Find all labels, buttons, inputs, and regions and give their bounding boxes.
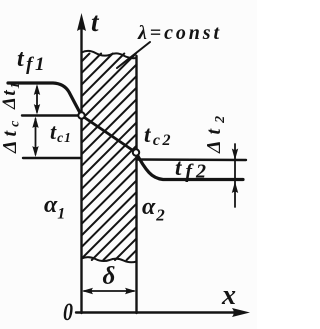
svg-text:α1: α1	[44, 192, 65, 223]
wall right face	[135, 56, 137, 313]
t axis (wall left face)	[80, 27, 82, 313]
node t_c2	[133, 149, 139, 155]
dimension arrow delta	[82, 288, 136, 294]
svg-text:tc1: tc1	[50, 119, 72, 145]
temperature line inside wall t_c1 -> t_c2	[82, 116, 137, 153]
x axis	[76, 311, 243, 313]
t_c1 level line	[22, 114, 81, 116]
svg-text:x: x	[221, 280, 236, 311]
node t_c1	[78, 112, 84, 118]
svg-text:tf1: tf1	[17, 46, 47, 75]
svg-text:Δtc: Δtc	[0, 117, 23, 154]
svg-text:Δt2: Δt2	[203, 110, 228, 154]
svg-text:Δt1: Δt1	[0, 81, 22, 110]
hatching of wall	[82, 54, 137, 261]
svg-text:λ=const: λ=const	[137, 22, 220, 44]
dimension arrow dtc	[32, 117, 38, 158]
t_c2 level line (right of wall)	[138, 158, 246, 161]
svg-text:δ: δ	[103, 263, 116, 290]
lambda pointer line	[117, 42, 150, 68]
dimension arrow dt2	[232, 144, 238, 207]
svg-text:0: 0	[63, 298, 73, 326]
svg-text:tc2: tc2	[144, 122, 173, 149]
t_c2 level line (left of wall)	[23, 157, 80, 159]
dimension arrow dt1	[34, 84, 40, 115]
temperature curve t_c2 -> t_f2	[136, 153, 243, 180]
wall bottom wavy edge	[82, 257, 137, 262]
wall top wavy edge	[82, 51, 137, 58]
label origin 0	[63, 298, 73, 326]
temperature curve t_f1 -> t_c1	[8, 83, 82, 116]
svg-text:t: t	[91, 7, 100, 37]
svg-text:α2: α2	[142, 194, 166, 225]
